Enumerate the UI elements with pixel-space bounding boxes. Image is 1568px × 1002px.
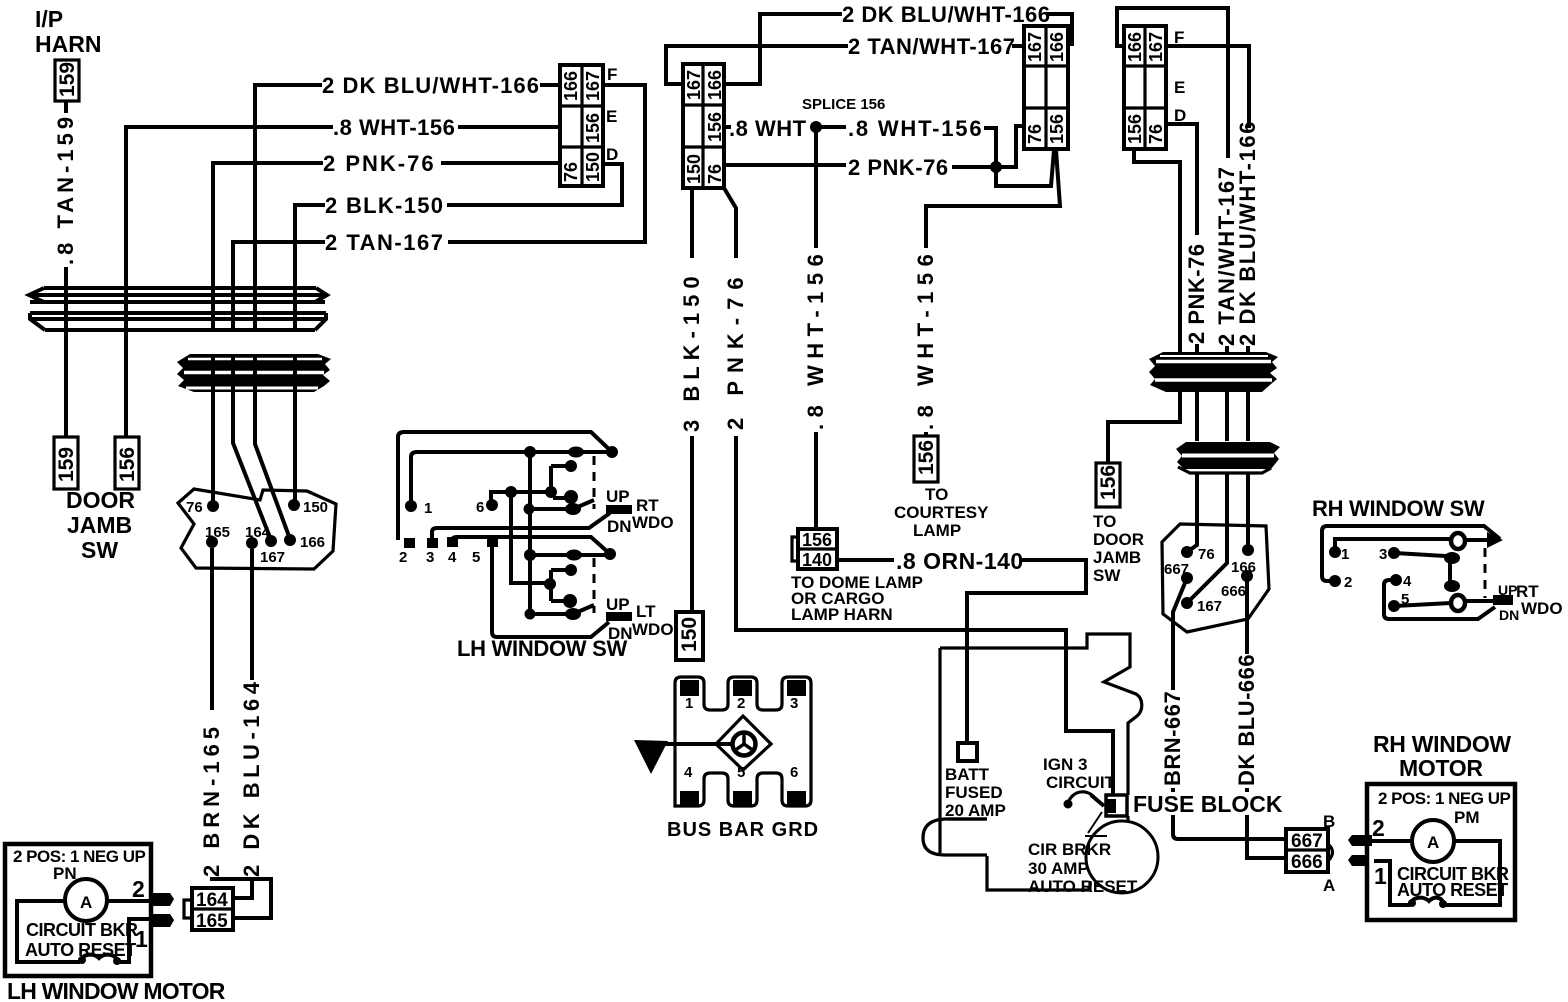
- SEC-RHMOTOR: [1348, 731, 1515, 920]
- svg-text:159: 159: [55, 447, 78, 482]
- svg-text:E: E: [1174, 78, 1185, 97]
- wire 166 net top left: [724, 14, 842, 84]
- grommet RH lower: [1176, 442, 1280, 473]
- arrow contact: [1487, 532, 1503, 548]
- SEC-LHMOTOR: [5, 548, 271, 1002]
- wire motor loop (LH): [17, 901, 150, 962]
- pin 76 (RH): [1181, 546, 1193, 558]
- wire wht-156 lower: [124, 331, 128, 437]
- junction dot: [566, 550, 582, 561]
- svg-text:.8 WHT-156: .8 WHT-156: [913, 248, 938, 430]
- wire 156 cell to door jamb: [1108, 149, 1180, 463]
- contact fork upper: [551, 466, 571, 498]
- svg-text:30 AMP: 30 AMP: [1028, 859, 1089, 878]
- contact dot: [524, 504, 535, 515]
- contact stub: [1466, 538, 1488, 542]
- svg-text:156: 156: [116, 447, 139, 482]
- wire DK BLU-666: [1247, 576, 1286, 858]
- connector 164/165 (LH motor): [184, 888, 233, 932]
- terminal bar RT WDO (RH): [1493, 595, 1513, 605]
- pin 1 (RH): [1329, 546, 1341, 558]
- svg-text:156: 156: [915, 440, 938, 475]
- wire splice to label: [816, 125, 846, 129]
- wire pin6 feed: [491, 492, 551, 505]
- svg-text:76: 76: [1146, 124, 1166, 144]
- svg-text:165: 165: [196, 911, 228, 932]
- connector 156 (courtesy lamp): [914, 436, 938, 482]
- wire pin1 rail: [1335, 539, 1451, 552]
- svg-text:2 DK BLU/WHT-166: 2 DK BLU/WHT-166: [1235, 120, 1260, 346]
- svg-text:167: 167: [583, 71, 603, 101]
- label TO COURTESY LAMP: [894, 485, 989, 540]
- pin 666 (RH): [1241, 570, 1253, 582]
- svg-text:.8 TAN-159: .8 TAN-159: [53, 113, 78, 265]
- wire RH sw outer: [1322, 526, 1500, 581]
- svg-text:WDO: WDO: [1521, 599, 1563, 618]
- pin 167: [265, 535, 277, 547]
- label TO DOOR JAMB SW: [1093, 512, 1144, 585]
- svg-text:667: 667: [1291, 831, 1323, 852]
- wire wht-156 to block A 156: [984, 128, 1054, 186]
- wire 166 net top right: [1046, 14, 1072, 44]
- pin 166 (RH): [1242, 544, 1254, 556]
- contact dot: [525, 609, 536, 620]
- wire 167 net left: [666, 46, 848, 84]
- contact dot dn: [564, 490, 578, 504]
- svg-text:3 BLK-150: 3 BLK-150: [679, 270, 704, 432]
- wire TAN to pin 167: [1187, 474, 1227, 603]
- wire 167 cell to right run: [1166, 46, 1249, 128]
- svg-text:1: 1: [685, 695, 693, 712]
- svg-text:166: 166: [1047, 32, 1067, 62]
- connector block C100 (LH door, left): [560, 65, 603, 186]
- svg-text:166: 166: [705, 70, 725, 100]
- svg-text:2 PNK-76: 2 PNK-76: [323, 151, 436, 176]
- connector 156 (door jamb end): [115, 437, 139, 489]
- svg-text:BRN-667: BRN-667: [1160, 691, 1185, 786]
- wires between grommets: [213, 355, 295, 392]
- svg-text:B: B: [1323, 812, 1335, 831]
- svg-text:1: 1: [424, 500, 432, 517]
- motor terminal stub B: [1348, 835, 1372, 846]
- svg-text:CIRCUIT BKR: CIRCUIT BKR: [26, 920, 138, 940]
- svg-text:6: 6: [476, 499, 484, 516]
- junction dot (splice crossing): [990, 161, 1002, 173]
- svg-text:3: 3: [1379, 546, 1387, 563]
- wires between RH grommets: [1197, 392, 1248, 441]
- svg-text:UP: UP: [606, 487, 630, 506]
- motor terminal stub A: [1348, 855, 1368, 866]
- svg-text:3: 3: [790, 695, 798, 712]
- connector 159 (I/P harness): [55, 60, 79, 101]
- wire PNK-76 to pin 76: [211, 392, 215, 506]
- wire TAN-167 diagonal to pin 167: [233, 392, 271, 540]
- wire 76 cell to right: [1166, 124, 1197, 235]
- pin 167 (RH): [1181, 597, 1193, 609]
- label DOOR JAMB SW: [66, 487, 135, 563]
- SEC-FUSE: [923, 634, 1158, 896]
- wire 3 BLK-150 down: [690, 188, 694, 612]
- svg-text:.8 WHT-156: .8 WHT-156: [848, 116, 983, 141]
- wire 2 DK BLU/WHT-166 left: [255, 85, 560, 288]
- label BATT FUSED 20 AMP: [945, 765, 1006, 820]
- connector 667/666 (RH motor): [1286, 829, 1333, 873]
- wires through grommet 1: [66, 288, 295, 331]
- wire lower rail: [530, 553, 610, 557]
- svg-text:4: 4: [448, 549, 457, 566]
- pin 4: [447, 537, 458, 547]
- svg-text:156: 156: [1125, 114, 1145, 144]
- motor circle A (LH): [65, 879, 107, 921]
- wire motor loop (RH): [1372, 841, 1500, 905]
- SEC-TOPLEFT: [35, 6, 645, 563]
- svg-text:76: 76: [561, 162, 581, 182]
- wire 2 PNK-76 left: [213, 163, 560, 288]
- RH window motor box: [1367, 784, 1515, 920]
- svg-text:4: 4: [684, 764, 693, 781]
- svg-text:2 DK BLU-164: 2 DK BLU-164: [239, 678, 264, 877]
- dashed pivot (RH): [1484, 548, 1487, 598]
- svg-text:166: 166: [561, 71, 581, 101]
- svg-text:5: 5: [472, 549, 480, 566]
- wire .8 WHT-156 to dome lamp: [814, 127, 818, 529]
- svg-text:AUTO RESET: AUTO RESET: [1028, 877, 1138, 896]
- label IGN 3 CIRCUIT: [1043, 755, 1116, 792]
- svg-text:167: 167: [1197, 598, 1222, 615]
- wire pin3 to DN contact: [432, 513, 610, 540]
- svg-text:MOTOR: MOTOR: [1399, 755, 1483, 781]
- wire .8 TAN-159 vertical: [64, 101, 68, 288]
- svg-text:167: 167: [1146, 32, 1166, 62]
- pin 164: [246, 537, 258, 549]
- pin 6: [486, 499, 498, 511]
- svg-text:2 BRN-165: 2 BRN-165: [199, 722, 224, 877]
- svg-text:CIRCUIT: CIRCUIT: [1046, 773, 1116, 792]
- svg-text:CIR BRKR: CIR BRKR: [1028, 840, 1111, 859]
- svg-text:UP: UP: [1498, 582, 1517, 598]
- wire 156 to courtesy lamp: [926, 150, 1060, 436]
- svg-text:IGN 3: IGN 3: [1043, 755, 1087, 774]
- grommet left upper (door boot): [29, 288, 327, 330]
- svg-text:165: 165: [205, 524, 230, 541]
- motor terminal stub 2: [150, 893, 174, 906]
- svg-text:.8 WHT-156: .8 WHT-156: [333, 115, 455, 140]
- svg-text:150: 150: [684, 154, 704, 184]
- svg-text:SPLICE 156: SPLICE 156: [802, 96, 885, 113]
- svg-text:PN: PN: [53, 864, 77, 883]
- svg-text:DK BLU-666: DK BLU-666: [1234, 654, 1259, 786]
- wire .8 WHT splice stub: [724, 125, 731, 129]
- pin 667 (RH): [1181, 572, 1193, 584]
- connector block C220 (RH quarter): [1124, 26, 1166, 149]
- svg-text:TO: TO: [1093, 512, 1116, 531]
- svg-text:JAMB: JAMB: [67, 512, 132, 538]
- svg-text:LAMP: LAMP: [913, 521, 961, 540]
- splice dot 156: [810, 121, 822, 133]
- contact dot: [565, 608, 581, 620]
- svg-text:150: 150: [678, 617, 701, 652]
- fuse block cavity (stadium): [923, 819, 987, 855]
- svg-text:RH WINDOW: RH WINDOW: [1373, 731, 1511, 757]
- SEC-GROMMETS-L: [29, 288, 331, 392]
- junction dot lower fork: [544, 578, 556, 590]
- contact fork lower: [551, 570, 571, 601]
- wire BRN-667: [1173, 578, 1286, 839]
- label CIR BRKR 30 AMP AUTO RESET: [1028, 840, 1138, 896]
- svg-text:167: 167: [260, 549, 285, 566]
- motor terminal stub 1: [150, 914, 174, 927]
- contact dot: [1444, 552, 1460, 564]
- svg-text:2 TAN-167: 2 TAN-167: [325, 230, 444, 255]
- IGN terminal fill: [1107, 799, 1116, 813]
- svg-text:AUTO RESET: AUTO RESET: [25, 940, 136, 960]
- wire 2 PNK-76 middle: [724, 126, 1024, 167]
- SEC-MIDDLE: [634, 2, 1113, 841]
- dashed pivot lower: [593, 558, 596, 613]
- connector RH door jamb (blob): [1162, 524, 1269, 632]
- svg-text:2 BLK-150: 2 BLK-150: [325, 193, 444, 218]
- svg-text:DOOR: DOOR: [1093, 530, 1144, 549]
- svg-text:WDO: WDO: [632, 513, 674, 532]
- svg-text:FUSE BLOCK: FUSE BLOCK: [1133, 791, 1283, 817]
- pin 3 (RH): [1388, 547, 1400, 559]
- svg-text:2: 2: [737, 695, 745, 712]
- svg-text:2: 2: [1372, 815, 1385, 841]
- svg-text:I/P: I/P: [35, 6, 63, 32]
- breaker pointer: [1085, 812, 1107, 836]
- SEC-RIGHT: [1093, 8, 1335, 895]
- svg-text:1: 1: [1374, 863, 1387, 889]
- wire 2 DK BLU-164: [233, 549, 252, 898]
- wire 166 cell to top run: [1117, 8, 1228, 158]
- title FUSE BLOCK backing: [1130, 792, 1282, 815]
- wire pin4 outer lower: [1384, 580, 1495, 619]
- wire feed lower fork: [511, 492, 551, 583]
- pin 76: [207, 500, 219, 512]
- connector block C200 (quarter, left): [683, 64, 725, 188]
- svg-text:.8 WHT: .8 WHT: [729, 116, 807, 141]
- contact ring upper (RH): [1451, 533, 1465, 549]
- svg-text:166: 166: [1125, 32, 1145, 62]
- svg-text:156: 156: [583, 113, 603, 143]
- svg-text:AUTO RESET: AUTO RESET: [1397, 880, 1508, 900]
- svg-text:UP: UP: [606, 595, 630, 614]
- wire LH sw outer top: [398, 432, 612, 540]
- svg-text:20 AMP: 20 AMP: [945, 801, 1006, 820]
- svg-text:2 DK BLU/WHT-166: 2 DK BLU/WHT-166: [842, 2, 1050, 27]
- wire .8 WHT-156 left: [126, 127, 560, 288]
- pin 150: [288, 499, 300, 511]
- svg-text:2 POS: 1 NEG UP: 2 POS: 1 NEG UP: [13, 847, 145, 866]
- svg-text:LT: LT: [636, 602, 656, 621]
- wire 2 BLK-150 left: [295, 164, 622, 288]
- svg-text:76: 76: [705, 164, 725, 184]
- svg-text:2 POS: 1 NEG UP: 2 POS: 1 NEG UP: [1378, 789, 1510, 808]
- connector 159 (door jamb end): [54, 437, 78, 489]
- circuit breaker hump (LH): [80, 955, 118, 962]
- pin 165: [206, 536, 218, 548]
- title RH WINDOW MOTOR: [1373, 731, 1511, 781]
- svg-text:2: 2: [1344, 574, 1352, 591]
- connector 156/140 (dome lamp): [792, 529, 837, 570]
- contact arm lower: [528, 605, 594, 614]
- pin 4 (RH): [1390, 574, 1402, 586]
- grommet RH upper: [1149, 352, 1278, 392]
- svg-text:DOOR: DOOR: [66, 487, 135, 513]
- junction dot: [524, 446, 536, 458]
- svg-text:76: 76: [1198, 546, 1215, 563]
- wire DK BLU/WHT-166 diagonal to pin 166: [255, 392, 290, 539]
- circuit breaker hump (RH): [1410, 898, 1444, 905]
- svg-text:2 TAN/WHT-167: 2 TAN/WHT-167: [848, 34, 1015, 59]
- svg-text:666: 666: [1291, 852, 1323, 873]
- svg-text:2 DK BLU/WHT-166: 2 DK BLU/WHT-166: [322, 73, 540, 98]
- svg-text:.8 WHT-156: .8 WHT-156: [803, 248, 828, 430]
- wire 2 PNK-76 down to fuse block: [724, 188, 1113, 795]
- svg-text:164: 164: [196, 890, 228, 911]
- wire 2 TAN-167 left: [233, 85, 645, 288]
- svg-text:76: 76: [186, 499, 203, 516]
- svg-text:156: 156: [1047, 114, 1067, 144]
- connector LH door jamb (blob): [178, 489, 336, 569]
- wire arrow to ground: [648, 742, 731, 746]
- BATT terminal square: [958, 743, 977, 761]
- svg-text:TO: TO: [925, 485, 948, 504]
- svg-text:E: E: [606, 107, 617, 126]
- contact dot dn: [563, 594, 577, 608]
- pin 3: [427, 538, 438, 548]
- LH window motor box: [5, 844, 151, 976]
- svg-text:2: 2: [399, 549, 407, 566]
- junction dot: [524, 549, 536, 561]
- SEC-RHSW: [1312, 496, 1563, 623]
- connector block C210 (quarter, right): [1024, 26, 1068, 149]
- contact ring lower (RH): [1451, 595, 1465, 611]
- terminal bar LT WDO: [606, 612, 632, 621]
- wire center bus down: [528, 452, 532, 614]
- wires into RH grommet: [1197, 344, 1248, 392]
- contact stub lower: [1466, 599, 1494, 603]
- wire LH sw feed rail: [411, 452, 612, 506]
- svg-text:BUS BAR GRD: BUS BAR GRD: [667, 819, 819, 841]
- svg-text:76: 76: [1025, 124, 1045, 144]
- svg-text:F: F: [607, 65, 617, 84]
- wire pin5 to ring: [1394, 603, 1451, 606]
- wire tan-159 lower: [64, 331, 68, 437]
- svg-text:6: 6: [790, 764, 798, 781]
- label TO DOME LAMP OR CARGO LAMP HARN: [791, 573, 923, 624]
- wire .8 ORN-140: [837, 560, 1086, 743]
- svg-text:4: 4: [1403, 573, 1412, 590]
- contact dot up: [565, 564, 577, 576]
- motor circle A (RH): [1412, 820, 1454, 862]
- svg-text:167: 167: [684, 70, 704, 100]
- svg-text:DN: DN: [607, 517, 632, 536]
- pin 2 (RH): [1329, 575, 1341, 587]
- svg-text:RH WINDOW SW: RH WINDOW SW: [1312, 496, 1485, 521]
- pin 166: [284, 534, 296, 546]
- pin 5 (RH): [1388, 600, 1400, 612]
- wire pin3 to contact: [1394, 553, 1450, 586]
- circuit breaker arc: [1064, 792, 1105, 809]
- grommet left lower (door boot 2): [177, 354, 331, 392]
- svg-text:A: A: [1323, 876, 1335, 895]
- svg-text:159: 159: [56, 62, 79, 97]
- svg-text:DN: DN: [1499, 607, 1519, 623]
- svg-text:666: 666: [1221, 583, 1246, 600]
- svg-text:167: 167: [1025, 32, 1045, 62]
- junction dot: [606, 446, 618, 458]
- svg-text:A: A: [80, 893, 92, 912]
- svg-text:140: 140: [802, 550, 832, 570]
- svg-text:D: D: [606, 145, 618, 164]
- svg-text:156: 156: [1097, 465, 1120, 500]
- svg-text:WDO: WDO: [632, 620, 674, 639]
- svg-text:SW: SW: [81, 537, 118, 563]
- circuit breaker circle (fuse block): [1086, 821, 1158, 893]
- svg-text:COURTESY: COURTESY: [894, 503, 989, 522]
- svg-text:LH WINDOW SW: LH WINDOW SW: [457, 636, 627, 661]
- terminal bar RT WDO: [606, 505, 632, 514]
- junction dot: [568, 447, 584, 458]
- wire DK BLU to pin 166: [1246, 474, 1250, 550]
- svg-text:FUSED: FUSED: [945, 783, 1003, 802]
- SEC-LHSW: [398, 432, 674, 661]
- wire 2 BRN-165: [212, 548, 271, 918]
- svg-text:PM: PM: [1454, 808, 1480, 827]
- IGN terminal square: [1106, 795, 1127, 816]
- pin 1: [405, 500, 417, 512]
- connector 156 (to door jamb sw): [1096, 463, 1120, 507]
- wire BLK-150 to pin 150: [293, 392, 297, 505]
- svg-text:150: 150: [583, 152, 603, 182]
- dashed pivot upper: [593, 456, 596, 509]
- svg-text:156: 156: [802, 530, 832, 550]
- junction dot fork feed: [505, 486, 517, 498]
- wire pin5 to DN contact: [492, 546, 609, 637]
- svg-text:2 PNK-76: 2 PNK-76: [1184, 243, 1209, 344]
- wire PNK to pin 76: [1187, 474, 1197, 552]
- ground arrow: [634, 740, 668, 774]
- pin 5: [487, 537, 498, 547]
- svg-text:3: 3: [426, 549, 434, 566]
- contact dot: [565, 503, 581, 515]
- svg-text:156: 156: [705, 112, 725, 142]
- svg-text:.8 ORN-140: .8 ORN-140: [896, 548, 1024, 574]
- svg-text:2: 2: [132, 876, 145, 902]
- pin 2: [404, 538, 415, 548]
- svg-text:166: 166: [300, 534, 325, 551]
- contact dot up: [565, 460, 577, 472]
- svg-text:LAMP HARN: LAMP HARN: [791, 605, 893, 624]
- svg-text:2 PNK-76: 2 PNK-76: [723, 269, 748, 430]
- svg-text:LH WINDOW MOTOR: LH WINDOW MOTOR: [7, 978, 226, 1002]
- svg-text:1: 1: [1341, 546, 1349, 563]
- connector 150 (bus bar end): [676, 612, 703, 660]
- bus bar grd body: [675, 677, 811, 807]
- contact dot: [1444, 580, 1460, 592]
- svg-text:2 PNK-76: 2 PNK-76: [848, 155, 949, 180]
- contact arm upper: [528, 500, 594, 509]
- fuse block outline: [940, 634, 1142, 890]
- svg-text:A: A: [1427, 833, 1439, 852]
- svg-text:150: 150: [303, 499, 328, 516]
- svg-text:667: 667: [1164, 561, 1189, 578]
- svg-text:HARN: HARN: [35, 31, 101, 57]
- junction dot: [604, 548, 616, 560]
- SEC-LHJAMB: [178, 392, 336, 569]
- ground symbol (bus bar): [716, 716, 771, 770]
